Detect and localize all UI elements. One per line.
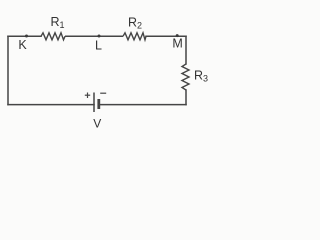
node L: [95, 35, 102, 53]
wire: [8, 35, 41, 37]
svg-text:K: K: [18, 38, 27, 52]
svg-text:R3: R3: [194, 68, 208, 83]
wire: [100, 104, 186, 106]
svg-text:V: V: [93, 116, 101, 130]
svg-text:M: M: [172, 37, 182, 51]
resistor R2: [123, 16, 146, 40]
svg-text:L: L: [95, 38, 102, 52]
wire: [8, 104, 94, 106]
wire: [65, 35, 123, 37]
resistor R3: [182, 64, 208, 90]
svg-text:R1: R1: [51, 15, 65, 30]
wire: [185, 36, 187, 64]
node K: [18, 35, 28, 52]
wire: [146, 35, 186, 37]
svg-text:R2: R2: [128, 16, 142, 31]
resistor R1: [41, 15, 65, 40]
node M: [172, 34, 182, 50]
battery V: [85, 93, 106, 131]
wire: [185, 90, 187, 105]
wire: [7, 36, 9, 104]
